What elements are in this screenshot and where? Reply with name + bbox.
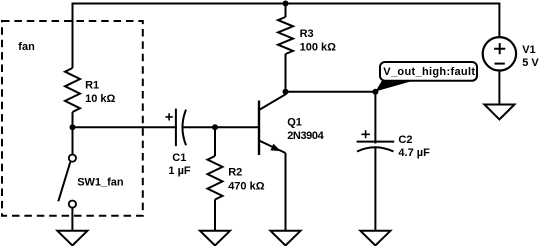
svg-text:1 µF: 1 µF [168,165,191,177]
wire: collector node to output node [286,91,376,93]
svg-text:V1: V1 [522,44,535,56]
wire: emitter to ground [285,153,287,231]
svg-text:SW1_fan: SW1_fan [77,176,124,188]
transistor Q1 [258,101,260,156]
source V1 [483,37,516,70]
wire: C2 to ground [374,148,376,231]
switch SW1_fan [69,155,76,162]
ground (V1) [484,105,514,120]
fan enclosure (dashed box) [2,21,143,216]
wire: R3 bottom to collector node [285,54,287,92]
svg-text:100 kΩ: 100 kΩ [300,41,337,53]
ground (R2) [200,231,230,246]
node D: output node [372,89,378,95]
wire: V1 to ground [498,71,500,105]
svg-text:2N3904: 2N3904 [287,130,324,142]
node A: R1/C1/switch junction [70,124,76,130]
wire: node A to C1 left plate [73,126,177,128]
ground (C2) [360,231,390,246]
svg-text:fan: fan [18,41,35,53]
svg-text:5 V: 5 V [522,57,539,69]
svg-text:R3: R3 [300,28,314,40]
svg-text:R1: R1 [85,80,99,92]
svg-text:10 kΩ: 10 kΩ [85,93,115,105]
resistor R1 [65,68,80,112]
svg-text:Q1: Q1 [287,116,302,128]
svg-text:C1: C1 [172,152,186,164]
capacitor C2 [374,92,376,144]
svg-text:C2: C2 [398,134,412,146]
collector lead [259,92,286,110]
wire: R2 to ground [214,200,216,231]
node C: collector node [283,89,289,95]
svg-text:4.7 µF: 4.7 µF [398,147,430,159]
resistor R3 [285,4,287,18]
wire: top rail from R1 branch to V1 [73,4,500,69]
wire: node B down to R2 [214,127,216,156]
ground (Q1 emitter) [271,231,301,246]
node: R3 top junction [283,1,289,7]
svg-text:V_out_high:fault: V_out_high:fault [383,66,475,78]
node B: C1/R2/base junction [212,124,218,130]
capacitor C1 [175,109,177,147]
plus mark C1 [166,113,173,120]
svg-text:470 kΩ: 470 kΩ [228,181,265,193]
net label V_out_high:fault (callout) [375,81,414,92]
ground (SW1) [57,231,87,246]
wire: switch bottom to ground [71,208,73,231]
emitter lead with arrow [259,141,286,154]
svg-text:R2: R2 [228,167,242,179]
wire: R1 bottom to switch [72,112,74,155]
resistor R2 [208,156,223,200]
plus mark C2 [361,130,370,138]
wire: C1 right plate to Q1 base bar [183,126,259,128]
